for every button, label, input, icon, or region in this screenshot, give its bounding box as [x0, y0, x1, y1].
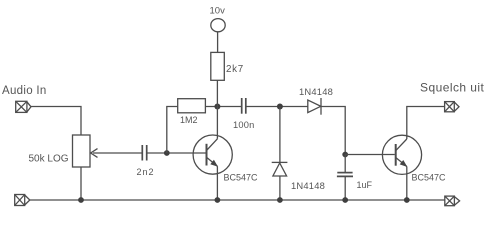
svg-text:1M2: 1M2: [180, 115, 198, 125]
svg-text:BC547C: BC547C: [412, 173, 447, 183]
node: junction 2n2 / 1M2 / Q1 base: [164, 150, 170, 156]
svg-text:BC547C: BC547C: [224, 173, 259, 183]
wire: 2k7 top to 10v terminal: [217, 32, 219, 53]
wire: Audio In to potentiometer top: [31, 107, 81, 136]
connector: ground terminal right: [445, 196, 460, 206]
transistor Q1 BC547C: [193, 135, 232, 174]
resistor 2k7: [211, 52, 225, 80]
node: pot bottom on ground rail: [78, 197, 84, 203]
diode D2 1N4148 (vertical, cathode up): [272, 162, 288, 176]
svg-text:2k7: 2k7: [226, 64, 244, 75]
wire: Q1 collector up to node: [216, 107, 218, 139]
wire: 1uF bottom plate to ground rail: [344, 176, 346, 200]
transistor Q2 BC547C: [382, 135, 421, 174]
capacitor 2n2: [142, 145, 146, 161]
capacitor 1uF: [337, 173, 353, 177]
resistor 1M2: [178, 99, 206, 113]
wiper arrow of potentiometer: [91, 149, 142, 158]
svg-text:2n2: 2n2: [137, 167, 155, 177]
node: Q1 emitter on ground rail: [215, 197, 221, 203]
connector: ground terminal left: [15, 195, 30, 206]
wire: potentiometer bottom to ground rail: [80, 167, 82, 200]
svg-text:10v: 10v: [210, 6, 226, 17]
wire: node down to 1uF top plate: [344, 155, 346, 173]
wire: Q2 emitter to ground rail: [406, 167, 408, 201]
wire: Q1 emitter to ground rail: [216, 166, 218, 200]
wire: D2 anode to ground rail: [279, 176, 281, 200]
wire: Q2 collector up and right to Squelch uit connector: [407, 107, 445, 140]
wire: 1M2 left lead down to base node: [167, 107, 178, 154]
svg-text:50k LOG: 50k LOG: [29, 154, 69, 165]
svg-text:1N4148: 1N4148: [291, 180, 325, 191]
connector: Squelch uit terminal: [445, 102, 459, 112]
node: junction 2k7 / 1M2 / 100n / Q1 collector: [214, 104, 220, 110]
wire: D1 cathode right then down to Q2 base node: [321, 107, 345, 155]
wire: node up to 2k7: [216, 80, 218, 106]
svg-text:100n: 100n: [233, 120, 254, 130]
wire: 2n2 to Q1 base: [147, 152, 206, 154]
node: D2 anode on ground rail: [277, 197, 283, 203]
potentiometer 50k LOG: [73, 135, 91, 167]
wire: 100n to diode D1 anode: [246, 106, 308, 108]
node: Q2 emitter on ground rail: [404, 197, 410, 203]
wire: 1M2 right lead to 100n: [205, 106, 241, 108]
node: junction D1 / 1uF / Q2 base: [342, 152, 348, 158]
wire: junction node down to diode D2 cathode: [279, 107, 281, 163]
diode D1 1N4148 (horizontal): [308, 98, 321, 115]
capacitor 100n: [242, 98, 246, 114]
node: junction 100n / D1 / D2: [277, 104, 283, 110]
svg-text:1uF: 1uF: [357, 180, 373, 190]
power terminal 10v: [211, 19, 225, 32]
svg-text:Squelch uit: Squelch uit: [420, 81, 485, 95]
connector: Audio In terminal: [16, 101, 31, 112]
node: 1uF on ground rail: [342, 197, 348, 203]
svg-text:1N4148: 1N4148: [299, 86, 333, 97]
ground rail wire: [30, 199, 445, 201]
wire: Q2 base node to Q2 base: [345, 154, 395, 156]
svg-text:Audio In: Audio In: [2, 85, 47, 97]
